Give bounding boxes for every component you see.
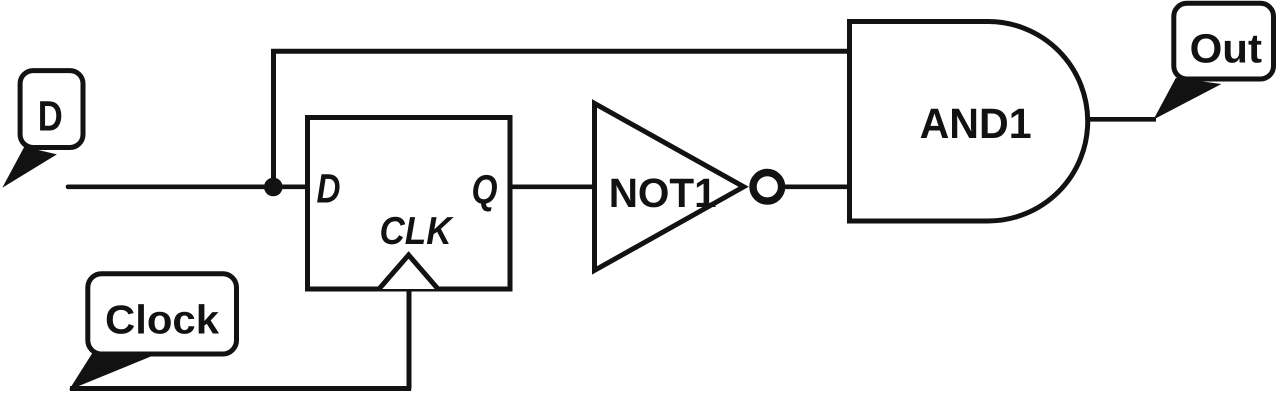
svg-text:CLK: CLK <box>380 210 455 253</box>
inverter NOT1 triangle <box>595 103 744 270</box>
wire clock horizontal <box>70 386 411 391</box>
svg-text:NOT1: NOT1 <box>609 170 717 216</box>
svg-text:D: D <box>317 166 341 212</box>
junction node <box>264 178 283 197</box>
svg-text:Clock: Clock <box>105 297 219 343</box>
wire Q to NOT1 <box>510 184 596 189</box>
callout label Clock <box>69 274 237 390</box>
D flip-flop body <box>308 118 511 290</box>
and-gate AND1 body <box>850 22 1088 222</box>
wire NOT1 to AND1 input B <box>783 184 850 189</box>
svg-text:Out: Out <box>1190 26 1263 72</box>
svg-text:AND1: AND1 <box>920 101 1032 148</box>
callout label Out <box>1154 3 1274 119</box>
callout label D <box>2 71 83 188</box>
wire feedback top to AND1 input A <box>271 49 850 54</box>
clock edge triangle <box>379 255 438 289</box>
inverter bubble <box>753 173 782 202</box>
svg-text:D: D <box>38 93 63 140</box>
wire feedback vertical <box>271 51 276 187</box>
wire AND1 output <box>1087 117 1157 122</box>
wire CLK vertical <box>407 289 412 389</box>
wire D input <box>68 184 307 189</box>
svg-text:Q: Q <box>472 167 498 213</box>
